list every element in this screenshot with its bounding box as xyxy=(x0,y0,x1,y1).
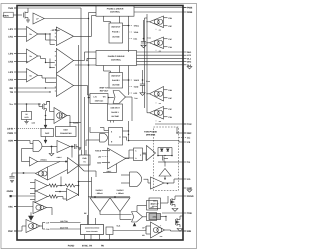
svg-text:DC1: DC1 xyxy=(134,37,138,40)
wire B2 output xyxy=(74,60,85,62)
transistor Q1 (SHDN FET) xyxy=(23,13,25,18)
block 5V LDO xyxy=(26,104,28,112)
comparator K2 xyxy=(150,37,164,49)
block 3ms startup delay xyxy=(149,198,161,209)
wire ch1 stub xyxy=(38,33,50,35)
svg-text:PHASE 1: PHASE 1 xyxy=(111,111,119,114)
svg-text:ONE-SHOT: ONE-SHOT xyxy=(111,25,121,28)
svg-text:PGND: PGND xyxy=(187,195,194,198)
op-amp T3 xyxy=(151,177,165,189)
wire K8 lower diagonal xyxy=(48,170,68,181)
power amp B4 xyxy=(68,158,79,174)
wire buffer to B4 xyxy=(40,161,66,163)
svg-text:THM: THM xyxy=(8,7,13,10)
svg-text:PD: PD xyxy=(101,245,104,248)
wire top rail xyxy=(88,196,130,198)
comparator K4 xyxy=(150,107,164,120)
wire K8 diagonal out xyxy=(48,162,61,168)
wire TDB pin xyxy=(162,212,183,214)
svg-text:PHASE 2: PHASE 2 xyxy=(112,79,120,82)
wire CG xyxy=(173,179,175,183)
svg-text:+ 180mV: + 180mV xyxy=(116,192,124,195)
svg-text:TG: TG xyxy=(187,161,190,164)
block DAC xyxy=(41,129,54,137)
node TRIG1 labels xyxy=(128,16,130,52)
FET M1 middle xyxy=(162,156,164,161)
wires G5 xyxy=(121,174,130,176)
block PHASE 1 DRIVER CONTROL xyxy=(96,6,134,17)
wire B1 output xyxy=(74,35,92,37)
block fault latch xyxy=(147,213,157,221)
wires into one-shot 2 xyxy=(103,66,105,72)
svg-text:OSC: OSC xyxy=(8,206,13,209)
op-amp U3b xyxy=(35,191,48,203)
capacitor C1 with ground xyxy=(143,20,145,42)
svg-text:SYNC_PA: SYNC_PA xyxy=(82,245,93,248)
junction on bus x88.5 xyxy=(88,64,90,66)
svg-text:CG: CG xyxy=(187,178,191,181)
svg-text:ON-TIME: ON-TIME xyxy=(112,36,120,39)
svg-text:PHASE 1: PHASE 1 xyxy=(112,31,120,34)
and-gate G5 xyxy=(129,172,131,187)
block counter xyxy=(147,201,158,211)
svg-text:TOK: TOK xyxy=(187,123,192,126)
resistor R2 xyxy=(65,184,75,187)
wire DISB continuation xyxy=(155,11,183,13)
wire TG xyxy=(172,161,183,163)
wire REF pin xyxy=(177,132,187,134)
ground below LDO xyxy=(26,120,28,122)
svg-text:TARGET: TARGET xyxy=(95,189,103,192)
svg-text:TRIG2: TRIG2 xyxy=(134,79,139,82)
wire feedback y65 xyxy=(75,64,96,66)
or-gate G1 xyxy=(113,91,126,104)
block aux xyxy=(106,227,113,235)
wires PHASE1 to PWB DISB pins xyxy=(134,7,187,9)
svg-text:PWM: PWM xyxy=(8,132,14,135)
svg-text:FORCE: FORCE xyxy=(95,149,102,152)
wire TM xyxy=(18,91,51,93)
comparator K8 (points left) xyxy=(36,167,48,180)
wire Q5 source bus xyxy=(45,111,47,123)
svg-text:MIN TON: MIN TON xyxy=(60,220,68,223)
svg-text:SLEW: SLEW xyxy=(73,121,79,124)
ground below Q3 xyxy=(172,209,178,212)
transistor Q5 xyxy=(38,104,40,107)
level shifter T1 xyxy=(147,146,156,161)
block ONE-SHOT PHASE2 ON-TIME xyxy=(109,73,123,89)
block PHASE 2 DRIVER CONTROL xyxy=(96,51,137,66)
block PWB TS xyxy=(79,155,90,165)
wires into one-shot 1 xyxy=(103,16,105,21)
wires U3 inputs xyxy=(30,182,35,184)
pin RT small square xyxy=(10,195,12,197)
wires uP box top xyxy=(87,215,89,225)
latch FF2 xyxy=(134,148,143,161)
bus feeding comparators xyxy=(146,14,148,113)
svg-text:LIN2: LIN2 xyxy=(8,61,14,64)
bus riser x88.5 xyxy=(89,12,97,14)
ground below Q4 xyxy=(177,229,183,232)
op-amp A1 (5x) ch1 xyxy=(27,27,38,42)
comparator V2 (down) xyxy=(110,198,130,212)
wire B5 feedback xyxy=(116,164,118,173)
wire K6 out SLEW xyxy=(67,115,70,117)
wires K5 inputs xyxy=(146,225,151,227)
svg-text:ADJ: ADJ xyxy=(159,121,162,123)
wire A2 out routing xyxy=(38,55,41,57)
svg-text:REF: REF xyxy=(187,132,192,135)
wires ch3 inputs xyxy=(18,71,27,73)
svg-text:– 180mV: – 180mV xyxy=(95,192,103,195)
node TRIG2 labels xyxy=(128,66,130,96)
svg-text:ISB: ISB xyxy=(9,87,13,90)
svg-text:ON-TIME: ON-TIME xyxy=(111,115,119,118)
block MICROPROCESSOR GATE CONTROL xyxy=(81,225,104,235)
svg-text:CS: CS xyxy=(187,141,191,144)
svg-text:CONTROL: CONTROL xyxy=(111,59,122,62)
svg-text:LIN3: LIN3 xyxy=(8,79,14,82)
svg-text:CS-IN: CS-IN xyxy=(7,128,13,131)
wires PHASE2 to gate pins xyxy=(137,51,184,53)
svg-text:PGND: PGND xyxy=(68,245,75,248)
wire RT input xyxy=(34,195,36,198)
left rail bus xyxy=(21,149,23,162)
wire VCC xyxy=(14,103,41,105)
wires counter xyxy=(137,205,147,207)
wires startup block xyxy=(161,202,169,204)
wires into latch xyxy=(90,132,109,134)
svg-text:3ms: 3ms xyxy=(153,200,156,203)
svg-text:ON-TIME: ON-TIME xyxy=(112,83,120,86)
resistor R1 xyxy=(48,185,50,187)
wire bus y140 to CS pin xyxy=(129,140,180,142)
IC boundary box xyxy=(17,6,183,241)
resistor R3 xyxy=(48,196,50,198)
op-amp U1 (thermal buffer) xyxy=(33,13,44,24)
power amp B3 xyxy=(56,75,73,97)
svg-text:LIP1: LIP1 xyxy=(8,28,13,31)
wire ISB xyxy=(18,87,57,89)
svg-text:LIN1: LIN1 xyxy=(8,36,14,39)
svg-text:SDN: SDN xyxy=(8,140,13,143)
ground C3 xyxy=(78,147,82,149)
svg-text:TDB: TDB xyxy=(187,212,192,215)
op-amp A3 (5x) ch3 xyxy=(27,69,38,83)
svg-text:GNDS: GNDS xyxy=(7,190,14,193)
svg-text:DC2: DC2 xyxy=(134,92,138,95)
svg-text:ONE-SHOT: ONE-SHOT xyxy=(111,75,121,78)
svg-text:CONVERTER: CONVERTER xyxy=(60,132,72,135)
dashed block output stage xyxy=(154,127,179,191)
wire TOK pin xyxy=(155,123,187,125)
block reference xyxy=(90,94,108,104)
svg-text:LIP3: LIP3 xyxy=(8,71,13,74)
block ONE-SHOT PHASE1 ON-TIME xyxy=(109,23,123,43)
svg-text:VREF 7.5V: VREF 7.5V xyxy=(99,86,109,89)
comparator K3 xyxy=(150,87,164,102)
stubs uP box bottom pins xyxy=(84,235,86,241)
wires to uP block xyxy=(50,222,81,224)
capacitor C2 with ground xyxy=(142,70,144,84)
svg-text:(GMAJ): (GMAJ) xyxy=(40,159,47,162)
or-gate G3 xyxy=(132,212,143,223)
arrow into DAC xyxy=(45,122,47,126)
wire FF2 out xyxy=(143,153,147,155)
svg-text:TM: TM xyxy=(10,91,13,94)
power amp B1 xyxy=(56,27,73,46)
wire THM net xyxy=(14,7,81,9)
transistor Q4 with ground xyxy=(175,219,177,225)
bus lines center column xyxy=(78,45,80,196)
svg-text:8-BIT DAC: 8-BIT DAC xyxy=(95,100,104,103)
wires V1 V2 to gate xyxy=(99,212,101,215)
svg-text:TARGET: TARGET xyxy=(116,189,124,192)
wires ch2 inputs xyxy=(18,53,27,55)
svg-text:LIP2: LIP2 xyxy=(8,53,13,56)
capacitor C4 to ground xyxy=(12,172,36,174)
latch FF1 xyxy=(109,128,123,146)
power amp B2 xyxy=(56,49,73,74)
svg-text:ADJ: ADJ xyxy=(159,30,162,32)
svg-text:CC: CC xyxy=(187,137,191,140)
wire B3 output xyxy=(74,85,88,87)
svg-text:PHASE 2 DRIVER: PHASE 2 DRIVER xyxy=(108,55,125,58)
wires G4 xyxy=(14,140,30,142)
wire K7 out node xyxy=(70,146,75,148)
wire A3 out routing xyxy=(38,74,42,76)
op-amp A2 (5x) ch2 xyxy=(27,49,38,63)
block ref buffer (shaded) xyxy=(149,214,161,220)
svg-text:ADJ: ADJ xyxy=(159,51,162,53)
comparator V1 (down) xyxy=(90,198,110,212)
svg-text:ADJ: ADJ xyxy=(159,103,162,105)
wires ch1 inputs xyxy=(18,28,27,30)
svg-text:SHDN: SHDN xyxy=(3,14,9,17)
wire G3 out xyxy=(143,216,147,218)
svg-text:DAC: DAC xyxy=(45,132,50,135)
svg-text:MIN: MIN xyxy=(187,230,191,233)
svg-text:TRIG1: TRIG1 xyxy=(134,24,139,27)
wire U5 out xyxy=(47,207,53,209)
svg-text:GMAJ: GMAJ xyxy=(57,156,62,159)
and-gate G2 xyxy=(100,133,105,135)
wires one-shot3 xyxy=(110,121,112,123)
svg-text:DRIVERS: DRIVERS xyxy=(146,134,156,137)
ground at DL2 pin xyxy=(187,67,192,69)
bus riser x81 xyxy=(80,8,82,150)
wire into target rail xyxy=(95,171,97,177)
svg-text:PMC: PMC xyxy=(8,230,13,233)
svg-text:PHASE 1 DRIVER: PHASE 1 DRIVER xyxy=(107,8,124,11)
power comparator B5 xyxy=(108,148,126,169)
wire MIN pin xyxy=(165,229,171,231)
wire G1 out xyxy=(108,97,114,99)
svg-text:TON2: TON2 xyxy=(134,85,139,88)
svg-text:TWO-PHASE: TWO-PHASE xyxy=(144,130,158,133)
comparator K5 (MIN) xyxy=(151,222,165,238)
svg-text:DISB: DISB xyxy=(187,11,193,14)
svg-text:PWB: PWB xyxy=(187,7,193,10)
svg-text:MAX TON: MAX TON xyxy=(60,226,69,229)
svg-text:refok: refok xyxy=(153,216,157,219)
op-amp K7 xyxy=(57,141,70,153)
pin SHDN boxed xyxy=(4,12,13,17)
wire into FF2 xyxy=(125,157,134,159)
wires K9 outputs xyxy=(40,225,43,227)
output FET pair with diodes xyxy=(158,147,172,149)
outer figure border xyxy=(1,4,197,249)
capacitor C3 xyxy=(74,144,76,149)
wire U1 output xyxy=(44,18,88,20)
wire feedback taps xyxy=(60,177,62,186)
svg-text:TON1: TON1 xyxy=(134,31,139,34)
op-amp U3a xyxy=(35,180,48,192)
wire B4 out xyxy=(79,166,85,172)
block ONE-SHOT 3 xyxy=(108,104,123,121)
svg-text:CONTROL: CONTROL xyxy=(110,11,121,14)
svg-text:ONE-SHOT: ONE-SHOT xyxy=(110,107,120,110)
clock arrow into G3 xyxy=(133,223,136,226)
svg-text:LDO: LDO xyxy=(25,116,29,119)
comparator K1 xyxy=(150,16,164,28)
wire B5 out xyxy=(126,158,130,160)
ground arrow below U5 xyxy=(30,212,32,216)
transistor Q3 with ground xyxy=(170,199,172,205)
wire latch outputs xyxy=(123,130,129,132)
bus riser x91.5 xyxy=(92,15,97,17)
ground symbol at GND pin xyxy=(187,190,192,192)
and-gate G4 (SDN) xyxy=(32,141,34,152)
ground below Q1 xyxy=(26,19,30,21)
block 8-BIT CONVERTER xyxy=(56,127,77,137)
op-amp U2 (buffer) xyxy=(30,157,38,166)
wire A1 out routing xyxy=(38,33,46,35)
op-amp U4 xyxy=(67,189,79,201)
osc amp U5 xyxy=(33,202,47,214)
arrow out of DAC xyxy=(45,137,47,142)
comparator K6 xyxy=(54,108,67,124)
svg-text:REF OUT: REF OUT xyxy=(100,89,109,92)
buffer amp T2 (points up) xyxy=(159,169,171,177)
comparator K9 (PMC) xyxy=(26,220,40,233)
wire aux out xyxy=(113,230,146,232)
